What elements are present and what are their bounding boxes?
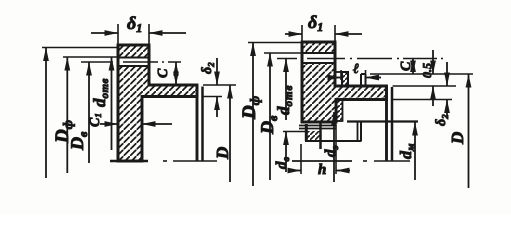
dimension C right figure bbox=[410, 59, 416, 75]
label d_otv right figure bbox=[274, 85, 295, 115]
dimension delta1 left figure bbox=[91, 24, 186, 44]
svg-text:C: C bbox=[156, 68, 171, 78]
pipe outer extension line left figure bbox=[203, 84, 236, 86]
dimension D_f left figure bbox=[42, 48, 118, 179]
dimension l right figure bbox=[328, 70, 382, 86]
pipe inner extension line left figure bbox=[203, 96, 222, 98]
dimension C1 left figure bbox=[100, 121, 172, 127]
dimension d_otv left figure bbox=[86, 62, 92, 163]
label d_otv left figure bbox=[90, 78, 111, 107]
svg-text:dэ: dэ bbox=[323, 145, 341, 157]
label delta1 left figure bbox=[127, 13, 142, 35]
label D right figure bbox=[448, 132, 467, 145]
label C left figure bbox=[156, 68, 171, 78]
bore surface line right figure bbox=[347, 120, 418, 122]
label d_v right figure bbox=[274, 157, 292, 170]
dimension h right figure bbox=[288, 125, 351, 174]
dimension D right figure bbox=[466, 74, 472, 188]
dimension D_f right figure bbox=[248, 43, 302, 187]
pipe axis centerline right figure bbox=[292, 160, 410, 162]
dimension d_e right figure bbox=[331, 112, 337, 182]
bolt hole centerline (dash-dot) right figure bbox=[277, 58, 443, 60]
svg-text:C: C bbox=[399, 61, 414, 71]
sleeve outer extension line right figure bbox=[283, 131, 305, 133]
label D left figure bbox=[213, 147, 232, 160]
svg-text:δ2: δ2 bbox=[200, 62, 216, 74]
label delta1 right figure bbox=[308, 12, 323, 34]
svg-text:dм: dм bbox=[398, 143, 417, 159]
svg-text:h: h bbox=[318, 162, 326, 178]
bolt hole centerline (dash-dot) left figure bbox=[81, 61, 181, 63]
label l right figure bbox=[353, 62, 359, 77]
label d_e right figure bbox=[323, 145, 341, 157]
label delta2 right figure bbox=[434, 114, 450, 126]
flare lip of pipe right figure bbox=[335, 72, 348, 86]
label 0.5 right figure bbox=[420, 63, 434, 78]
dimension delta2 right figure bbox=[444, 62, 450, 117]
pipe outer extension line right figure bbox=[393, 85, 457, 87]
label D_v left figure bbox=[67, 131, 90, 151]
svg-text:dотв: dотв bbox=[274, 85, 295, 115]
pipe inner extension line right figure bbox=[393, 99, 453, 101]
label D_f right figure bbox=[239, 96, 262, 120]
flare outer extension line right figure bbox=[370, 73, 473, 75]
dimension D_v left figure bbox=[63, 57, 118, 173]
label D_f left figure bbox=[52, 120, 75, 144]
dimension d_v right figure bbox=[283, 132, 289, 173]
bolt hole gap in left flange bbox=[115, 45, 153, 161]
svg-text:δ2: δ2 bbox=[434, 114, 450, 126]
svg-text:D: D bbox=[448, 132, 467, 145]
label C1 left figure bbox=[88, 113, 103, 127]
pipe end double line left figure bbox=[197, 85, 203, 161]
sleeve (inner tube wall) right figure bbox=[299, 122, 362, 149]
svg-text:0.5: 0.5 bbox=[420, 63, 434, 78]
flange section left figure (hatched body) bbox=[118, 45, 197, 161]
svg-text:D: D bbox=[213, 147, 232, 160]
svg-text:δ1: δ1 bbox=[308, 12, 323, 34]
dimension d_m right figure bbox=[412, 122, 418, 180]
dimension C left figure bbox=[173, 62, 179, 85]
svg-text:dотв: dотв bbox=[90, 78, 111, 107]
dimension delta1 right figure bbox=[285, 25, 362, 41]
dimension d_otv right figure bbox=[283, 59, 289, 121]
svg-text:Dв: Dв bbox=[257, 115, 280, 135]
d_otv dimension line left figure bbox=[109, 57, 115, 150]
svg-text:Dф: Dф bbox=[239, 96, 262, 120]
liner sleeve end verticals right figure bbox=[358, 121, 362, 141]
dimension 0.5 right figure bbox=[430, 50, 436, 106]
dimension D_v right figure bbox=[264, 53, 302, 180]
svg-text:C1: C1 bbox=[88, 113, 103, 127]
label delta2 left figure bbox=[200, 62, 216, 74]
flange section right figure (hatched body) bbox=[302, 42, 387, 122]
svg-text:dв: dв bbox=[274, 157, 292, 170]
label C right figure bbox=[399, 61, 414, 71]
label D_v right figure bbox=[257, 115, 280, 135]
liner flare lip right figure bbox=[361, 74, 366, 86]
label h right figure bbox=[318, 162, 326, 178]
label d_m right figure bbox=[398, 143, 417, 159]
dimension D left figure bbox=[227, 85, 233, 182]
dimension delta2 left figure bbox=[214, 58, 220, 117]
pipe axis centerline left figure bbox=[110, 160, 217, 163]
liner flare region right figure bbox=[337, 100, 343, 122]
bolt hole gap in right flange bbox=[299, 42, 338, 122]
svg-text:δ1: δ1 bbox=[127, 13, 142, 35]
pipe end double line right figure bbox=[387, 86, 393, 161]
svg-text:ℓ: ℓ bbox=[353, 62, 359, 77]
